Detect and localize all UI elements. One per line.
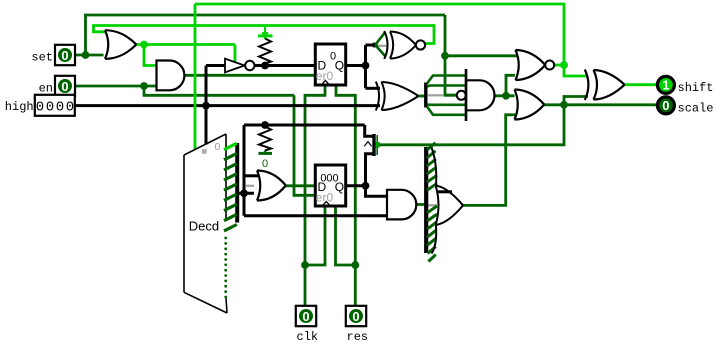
wire OR1 out down to NOT bbox=[234, 45, 237, 62]
wire set pin to OR1 bbox=[75, 54, 104, 57]
floating stub OR2 middle input bbox=[246, 185, 254, 187]
nor-gate G10 bbox=[516, 50, 555, 80]
and-gate G2 bbox=[157, 61, 185, 91]
wire G9 output up to OR G11 bottom input bbox=[463, 115, 515, 206]
wire FF2-Q node to component A bottom input bbox=[366, 154, 374, 186]
wire AND G2 out to FF1 enable bbox=[184, 74, 316, 77]
wire to XNOR1 input point bbox=[366, 44, 376, 47]
wire NOR-net to XOR G12 top input bbox=[564, 65, 588, 76]
wire bus2 horizontal R2 row bbox=[244, 124, 365, 127]
node set junction bbox=[82, 51, 90, 59]
node G5 output junction bbox=[502, 92, 510, 100]
wire en pin to AND G2 bbox=[75, 85, 157, 88]
wire bus2 to component A top input bbox=[365, 125, 373, 136]
svg-text:res: res bbox=[347, 330, 369, 344]
wire G5 out to junction bbox=[494, 94, 515, 97]
label high bbox=[5, 100, 34, 114]
wire res branch to FF2 reset bbox=[336, 205, 356, 265]
wire to XOR2 top input bbox=[366, 87, 381, 90]
wire G8 out to G9 port bar bbox=[416, 203, 425, 206]
node G11 output junction bbox=[560, 101, 568, 109]
floating stub G5 middle input bbox=[428, 94, 444, 96]
label set bbox=[31, 51, 53, 65]
svg-text:0: 0 bbox=[215, 141, 221, 153]
wire xnor-loop bright top bbox=[94, 26, 435, 44]
xor-gate G12 bbox=[585, 70, 625, 101]
resistor R1 pull-up bbox=[258, 27, 273, 64]
wire set-net down to G5/G10 bbox=[445, 15, 457, 95]
wire scale-net feedback loop down-left to component A output bbox=[379, 105, 564, 145]
wire bus3 bottom row to G8 bbox=[244, 214, 388, 217]
output pin shift bbox=[657, 76, 674, 93]
or-gate G9 wide fan-in bbox=[426, 143, 463, 262]
label res bbox=[347, 330, 369, 344]
node bus2 junction bbox=[240, 189, 248, 197]
floating stub XNOR1 middle input bbox=[377, 45, 387, 47]
or-gate OR1 bbox=[105, 30, 136, 59]
flip-flop FF2 register bbox=[315, 165, 345, 206]
flip-flop FF1 register bbox=[315, 44, 345, 85]
not-gate U1 bbox=[225, 59, 255, 73]
wire FF1-Q node vertical bbox=[364, 45, 367, 88]
svg-text:0: 0 bbox=[302, 309, 309, 324]
svg-text:high: high bbox=[5, 100, 34, 114]
node res junction bbox=[351, 261, 359, 269]
svg-text:0: 0 bbox=[61, 48, 68, 63]
node FF1Q fan-in point bbox=[373, 43, 378, 48]
node R1 junction bbox=[261, 62, 269, 70]
decoder unused output dots bbox=[224, 237, 227, 299]
label shift bbox=[678, 81, 714, 95]
or-gate OR2 bbox=[257, 171, 286, 201]
wire junction up to NOR G10 bottom input bbox=[506, 75, 515, 96]
wire splitter DS1 bus to node bbox=[236, 192, 254, 195]
wire set-net to NOR G10 top input bbox=[445, 54, 517, 57]
resistor R2 pull-down bbox=[259, 127, 273, 171]
svg-text:en: en bbox=[39, 82, 53, 96]
input pin high 4-bit bbox=[35, 95, 75, 116]
wire res net bbox=[336, 84, 355, 306]
node clk junction bbox=[301, 261, 309, 269]
label scale bbox=[678, 101, 714, 115]
wire XOR G12 out to shift bbox=[624, 83, 658, 86]
svg-text:Q: Q bbox=[335, 59, 344, 73]
svg-text:0: 0 bbox=[56, 100, 64, 116]
wire G4 out to G5 bar bbox=[419, 95, 426, 98]
wire NOT out to FF1 D bbox=[255, 64, 317, 67]
svg-text:0: 0 bbox=[352, 309, 359, 324]
node NOR output junction bbox=[560, 61, 568, 69]
wire stub black at G9 bbox=[437, 190, 452, 193]
input pin res bbox=[346, 306, 366, 326]
decoder Decd bbox=[184, 134, 227, 313]
or-gate G11 bbox=[515, 90, 545, 120]
wire NOR G10 bubble to node bbox=[554, 64, 565, 67]
wire clk branch to FF2 clock bbox=[305, 205, 325, 265]
wire set-net horizontal top bbox=[86, 15, 446, 55]
label en bbox=[39, 82, 53, 96]
wire OR1 output bright bbox=[136, 43, 236, 46]
node set-net junction at G5 bbox=[441, 52, 449, 60]
svg-text:1: 1 bbox=[662, 78, 669, 93]
svg-text:0: 0 bbox=[262, 158, 268, 170]
svg-text:set: set bbox=[31, 51, 53, 65]
node FF1 Q junction bbox=[362, 62, 370, 70]
wire high bus bbox=[75, 104, 380, 107]
svg-text:0: 0 bbox=[61, 79, 68, 94]
wire OR2 out to FF2 D bbox=[285, 184, 316, 187]
input pin set bbox=[55, 45, 75, 65]
svg-text:0: 0 bbox=[662, 98, 669, 113]
and-gate G5 with input fan and negated input bbox=[426, 69, 495, 121]
wire bus branch to NOT and decoder select bbox=[206, 66, 226, 145]
wire FF2-Q node to AND G8 top input bbox=[366, 186, 389, 197]
svg-text:0: 0 bbox=[46, 100, 54, 116]
wire en-net to FF2 enable bbox=[294, 95, 316, 195]
xnor-gate G3 bbox=[373, 31, 425, 59]
and-gate G8 bbox=[387, 190, 416, 220]
svg-text:scale: scale bbox=[678, 101, 714, 115]
wire NOR-net up along top bbox=[195, 4, 564, 65]
svg-text:shift: shift bbox=[678, 81, 714, 95]
xor-gate G4 bbox=[376, 82, 419, 111]
wire FF2 Q to node bbox=[345, 184, 366, 187]
wire bright vertical to decoder enable bbox=[194, 4, 197, 150]
node high bus junction bbox=[202, 102, 210, 110]
node R2 junction bbox=[261, 121, 269, 129]
subcircuit A bbox=[364, 134, 380, 156]
input pin en bbox=[55, 76, 75, 96]
wire G11 out to scale bbox=[544, 103, 658, 106]
wire G11 out up to XOR G12 bottom input bbox=[564, 97, 588, 105]
wire bus2 stub to OR2 top input bbox=[244, 174, 258, 177]
node en junction bbox=[140, 82, 148, 90]
wire clk net bbox=[305, 84, 325, 306]
svg-text:Q: Q bbox=[335, 180, 344, 194]
wire bus2 vertical spine bbox=[243, 125, 246, 216]
splitter DS1 bbox=[224, 143, 237, 231]
svg-text:clk: clk bbox=[297, 330, 319, 344]
node OR1 output junction bbox=[140, 41, 148, 49]
floating stub G9 middle input bbox=[426, 204, 437, 206]
output pin scale bbox=[657, 97, 674, 114]
wire FF1 Q to node bbox=[345, 64, 366, 67]
wire en-net down and right bbox=[144, 86, 294, 95]
wire OR1 out to AND G2 top input bbox=[144, 45, 157, 66]
svg-text:0: 0 bbox=[36, 100, 44, 116]
input pin clk bbox=[296, 306, 316, 326]
svg-text:Decd: Decd bbox=[189, 219, 219, 234]
label clk bbox=[297, 330, 319, 344]
svg-text:0: 0 bbox=[66, 100, 74, 116]
node FF2 Q junction bbox=[362, 182, 370, 190]
